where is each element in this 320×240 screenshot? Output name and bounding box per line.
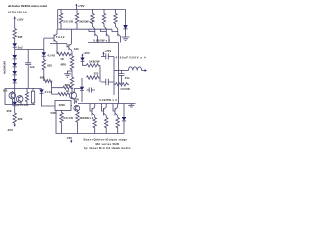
+15V supply arrow [14,16,16,21]
resistor 633 on x41 [42,56,45,81]
trimmer box resistor [31,88,34,105]
output transistor Q9 [90,104,95,118]
collector resistor col3 [114,9,118,28]
transistor Q mirror b [16,95,23,105]
svg-text:44n: 44n [125,76,130,80]
resistor 2k2 top [75,9,78,29]
resistor chain x72 lower [70,71,73,92]
svg-text:5A42: 5A42 [56,35,65,39]
resistor 1K8/2W [87,64,101,67]
rail end drop [125,9,127,25]
svg-text:+15V: +15V [17,17,24,21]
svg-text:4700uF/100V x 4: 4700uF/100V x 4 [116,56,146,60]
svg-text:+70V: +70V [78,4,85,8]
clamp diode top right [123,25,128,37]
resistor 223 [87,76,101,79]
top rail +70V [58,8,126,10]
wire [14,83,16,102]
svg-text:633: 633 [47,63,52,67]
link vertical x100 [99,65,101,82]
psu bus vertical [113,57,115,96]
-15V mid arrow [75,101,77,104]
svg-text:22/1W: 22/1W [63,19,73,23]
zobel capacitor 44n [119,71,125,85]
+70V top arrow [75,4,77,10]
wire [14,106,16,113]
svg-text:10/5W: 10/5W [120,87,130,91]
bottom rail -70V [56,111,124,134]
svg-text:2u2: 2u2 [18,46,23,50]
output node vertical [118,43,120,104]
svg-text:-70V: -70V [66,136,72,140]
svg-text:+70V: +70V [105,49,112,53]
svg-text:-15V: -15V [74,99,80,102]
resistor 1K horizontal upper [57,44,72,56]
diode 4148 upper on x41 [42,38,47,56]
resistor 1K lower [52,93,70,96]
transistor Q mirror a [9,91,16,105]
svg-text:620: 620 [18,117,23,121]
output transistor Q11 [113,104,118,118]
emitter bus bottom [78,103,136,105]
capacitor small mid [87,88,96,93]
link vertical x51.5 [51,81,53,94]
electrolytic caps upper [101,54,114,60]
rail left drop wire [57,9,59,29]
output transistor Q5 [112,29,121,43]
svg-text:-15V: -15V [7,128,13,132]
svg-text:all diodes 1N4004 unless noted: all diodes 1N4004 unless noted [8,4,47,8]
resistor 2k2 bottom [76,112,79,134]
clamp diode bottom [122,104,127,134]
ground bottom right [128,104,134,108]
svg-text:1K: 1K [60,57,64,61]
diode D5 [12,75,17,83]
svg-text:2200: 2200 [59,103,66,107]
diode D2 [12,50,17,59]
svg-text:6R8: 6R8 [61,63,67,67]
base bus H2 [58,28,112,30]
+15V mid arrow [82,54,84,58]
box 2200 [55,101,72,111]
wire junction node A [15,47,44,49]
ground top right [122,37,130,41]
svg-text:4x1N4148: 4x1N4148 [3,61,7,74]
output line [114,70,129,72]
svg-text:180: 180 [3,88,8,92]
svg-text:635: 635 [18,35,23,39]
diode D3 [12,59,17,67]
resistor 6R8 lower [52,86,74,89]
driver transistor Q7 [70,89,83,105]
capacitor 1u3 branch [25,50,31,89]
svg-text:2k2/1W x 3: 2k2/1W x 3 [80,116,94,120]
wire [14,40,16,44]
diode 4148 lower on x41 [39,89,55,107]
emitter resistor bottom c [116,118,119,134]
zobel resistor 10/5W [114,83,129,86]
resistor 470 vertical [25,88,28,105]
-15V supply arrow [14,124,16,127]
diode D6 NTC [12,102,17,106]
electrolytic caps lower [101,79,114,85]
svg-text:0.05/5W x 3: 0.05/5W x 3 [93,38,110,42]
output transistor Q10 [102,104,107,118]
svg-text:22/1W: 22/1W [63,116,73,120]
resistor chain x72 upper [70,56,73,71]
emitter resistor bottom b [104,118,107,134]
emitter resistor bottom a [93,118,96,134]
svg-text:1K8/2W: 1K8/2W [89,60,100,64]
diode mid supply [80,58,86,66]
output wire and terminal [142,69,147,71]
wire [14,21,16,29]
resistor 635 [13,29,16,40]
output transistor Q4 [101,29,110,43]
svg-text:otherwise: otherwise [8,10,27,14]
ground mid stub [64,71,72,77]
resistor 680 horizontal [44,79,52,82]
resistor 620 [13,113,16,124]
resistor 22/1W bottom [60,111,63,134]
svg-text:4148: 4148 [47,53,55,57]
transistor Q1 5A42 [44,29,57,43]
svg-text:A43: A43 [74,47,79,51]
resistor 22/1W top [59,9,62,29]
svg-text:1u3: 1u3 [30,65,35,69]
transistor Q2 A43 [50,29,72,56]
svg-text:+15V: +15V [83,51,90,55]
diode D4 [12,67,17,75]
output transistor Q3 [89,29,98,43]
+70V mid arrow [103,52,105,57]
svg-text:223: 223 [94,72,99,76]
svg-text:3V9: 3V9 [7,109,12,113]
collector resistor col1 [91,9,95,28]
-70V arrow [70,140,72,144]
collector resistor col2 [102,9,106,28]
diode D1 [12,43,17,47]
bias diode mid [80,78,84,102]
bias transistor Q8 [74,105,80,112]
svg-text:680: 680 [40,76,45,80]
emitter bus top [88,42,119,44]
wire bus left mirror [5,89,42,105]
svg-text:by Janet M.A f/d Hawk Audio: by Janet M.A f/d Hawk Audio [84,146,131,150]
svg-text:0.22/5W x 3: 0.22/5W x 3 [99,98,117,102]
output inductor L1 [128,67,141,71]
